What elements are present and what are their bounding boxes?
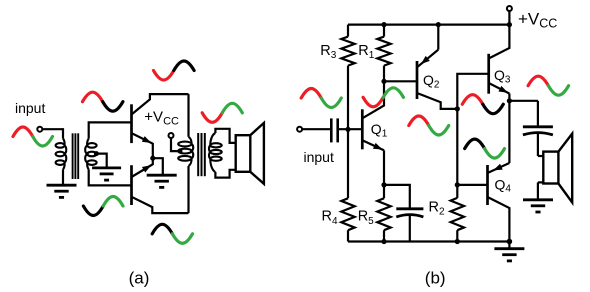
svg-text:(b): (b)	[425, 268, 446, 287]
svg-text:input: input	[304, 149, 334, 165]
svg-text:input: input	[15, 100, 45, 116]
svg-text:(a): (a)	[129, 268, 150, 287]
